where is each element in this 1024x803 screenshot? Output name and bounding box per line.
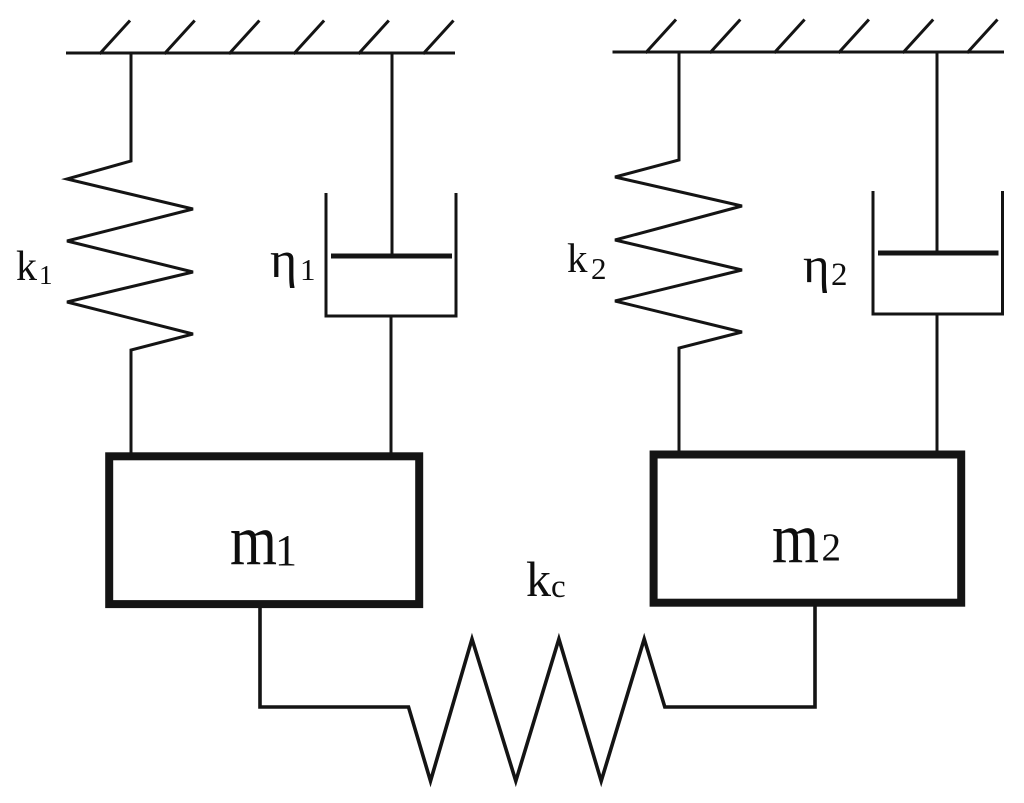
svg-text:c: c (551, 569, 566, 605)
svg-text:1: 1 (300, 252, 316, 287)
svg-text:2: 2 (831, 257, 848, 293)
svg-text:η: η (270, 232, 297, 289)
svg-text:η: η (803, 238, 830, 294)
svg-text:1: 1 (39, 260, 53, 290)
svg-text:2: 2 (591, 251, 607, 286)
svg-text:m: m (772, 498, 819, 578)
svg-text:k: k (526, 551, 551, 607)
svg-text:k: k (567, 235, 588, 281)
svg-text:2: 2 (822, 526, 842, 569)
svg-text:m: m (230, 500, 277, 580)
svg-text:1: 1 (275, 526, 297, 575)
svg-text:k: k (16, 244, 37, 290)
